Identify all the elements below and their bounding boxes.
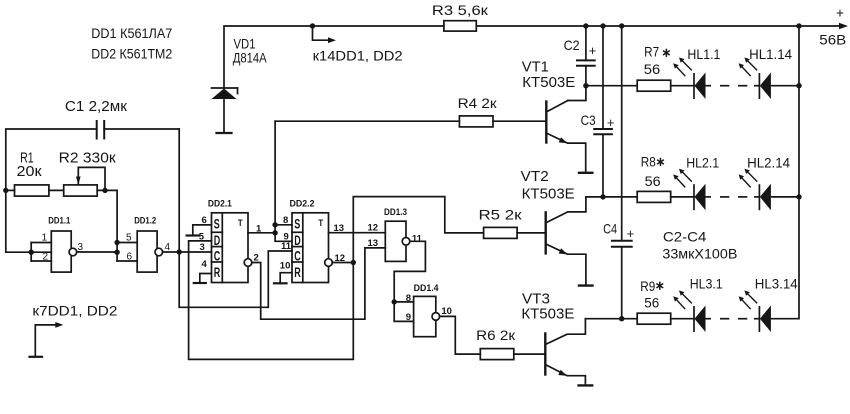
svg-text:56: 56 bbox=[644, 295, 659, 311]
svg-text:T: T bbox=[238, 218, 243, 229]
svg-text:C2: C2 bbox=[564, 37, 580, 53]
svg-text:HL3.14: HL3.14 bbox=[755, 276, 798, 292]
svg-text:VT1: VT1 bbox=[522, 59, 549, 76]
svg-text:C4: C4 bbox=[603, 221, 617, 237]
svg-text:56: 56 bbox=[644, 61, 661, 77]
svg-text:R6 2к: R6 2к bbox=[476, 327, 516, 343]
svg-text:C: C bbox=[294, 248, 301, 263]
svg-text:20к: 20к bbox=[17, 163, 42, 180]
svg-text:R7: R7 bbox=[644, 43, 659, 59]
svg-text:к14DD1, DD2: к14DD1, DD2 bbox=[313, 47, 403, 63]
svg-text:+: + bbox=[589, 43, 597, 58]
svg-text:D: D bbox=[294, 233, 301, 248]
svg-text:DD2 К561ТМ2: DD2 К561ТМ2 bbox=[91, 45, 172, 61]
svg-text:S: S bbox=[214, 217, 220, 232]
svg-text:11: 11 bbox=[412, 234, 423, 245]
svg-text:10: 10 bbox=[280, 260, 291, 271]
svg-text:Д814А: Д814А bbox=[233, 50, 268, 66]
svg-text:DD2.2: DD2.2 bbox=[290, 198, 315, 209]
svg-text:R: R bbox=[294, 265, 301, 280]
svg-text:13: 13 bbox=[368, 238, 379, 249]
svg-text:4: 4 bbox=[165, 242, 171, 253]
svg-text:+: + bbox=[607, 115, 615, 130]
svg-text:56В: 56В bbox=[819, 32, 846, 48]
svg-text:R9: R9 bbox=[640, 278, 655, 294]
svg-text:DD1.1: DD1.1 bbox=[48, 215, 71, 226]
svg-text:8: 8 bbox=[283, 215, 288, 226]
svg-text:КТ503Е: КТ503Е bbox=[522, 74, 575, 91]
svg-text:DD1.4: DD1.4 bbox=[414, 283, 440, 294]
svg-text:HL1.14: HL1.14 bbox=[749, 46, 792, 62]
svg-text:5: 5 bbox=[199, 231, 205, 242]
svg-text:12: 12 bbox=[368, 222, 379, 233]
svg-text:DD2.1: DD2.1 bbox=[208, 198, 233, 209]
svg-text:КТ503Е: КТ503Е bbox=[522, 185, 575, 202]
svg-text:56: 56 bbox=[645, 173, 661, 189]
svg-text:S: S bbox=[294, 217, 300, 232]
svg-text:HL2.1: HL2.1 bbox=[686, 155, 719, 171]
svg-text:33мкХ100В: 33мкХ100В bbox=[662, 246, 737, 262]
svg-text:5: 5 bbox=[126, 233, 132, 244]
svg-text:6: 6 bbox=[127, 252, 133, 263]
svg-text:2: 2 bbox=[254, 252, 259, 263]
svg-text:C: C bbox=[214, 248, 221, 263]
svg-text:+: + bbox=[627, 226, 635, 241]
svg-text:4: 4 bbox=[202, 259, 208, 270]
svg-text:+: + bbox=[836, 5, 844, 21]
svg-text:8: 8 bbox=[406, 293, 411, 304]
svg-text:2: 2 bbox=[43, 252, 49, 263]
svg-text:к7DD1, DD2: к7DD1, DD2 bbox=[32, 303, 117, 319]
svg-text:HL3.1: HL3.1 bbox=[690, 276, 723, 292]
svg-text:R5 2к: R5 2к bbox=[479, 206, 523, 222]
svg-text:R: R bbox=[214, 265, 221, 280]
svg-text:HL2.14: HL2.14 bbox=[747, 155, 790, 171]
svg-text:R8: R8 bbox=[641, 153, 656, 169]
svg-text:13: 13 bbox=[334, 223, 345, 234]
svg-text:R2 330к: R2 330к bbox=[59, 150, 116, 167]
svg-text:6: 6 bbox=[202, 215, 207, 226]
svg-text:DD1.2: DD1.2 bbox=[134, 215, 156, 226]
svg-text:1: 1 bbox=[42, 233, 48, 244]
svg-text:3: 3 bbox=[78, 242, 84, 253]
svg-text:11: 11 bbox=[281, 241, 292, 252]
svg-text:R4 2к: R4 2к bbox=[458, 95, 498, 111]
svg-text:КТ503Е: КТ503Е bbox=[521, 306, 574, 323]
svg-text:D: D bbox=[214, 233, 221, 248]
svg-text:10: 10 bbox=[441, 306, 452, 317]
svg-text:3: 3 bbox=[200, 242, 205, 253]
svg-text:VT2: VT2 bbox=[521, 168, 549, 185]
svg-text:DD1.3: DD1.3 bbox=[384, 207, 407, 218]
svg-text:T: T bbox=[318, 218, 323, 229]
svg-text:R3 5,6к: R3 5,6к bbox=[432, 2, 489, 18]
svg-text:HL1.1: HL1.1 bbox=[687, 46, 720, 62]
svg-text:12: 12 bbox=[335, 253, 346, 264]
svg-text:9: 9 bbox=[406, 312, 411, 323]
svg-text:C1 2,2мк: C1 2,2мк bbox=[65, 98, 127, 115]
svg-text:1: 1 bbox=[256, 223, 262, 234]
svg-text:C2-C4: C2-C4 bbox=[663, 228, 707, 244]
svg-text:DD1 К561ЛА7: DD1 К561ЛА7 bbox=[91, 25, 172, 41]
svg-text:C3: C3 bbox=[581, 112, 596, 128]
